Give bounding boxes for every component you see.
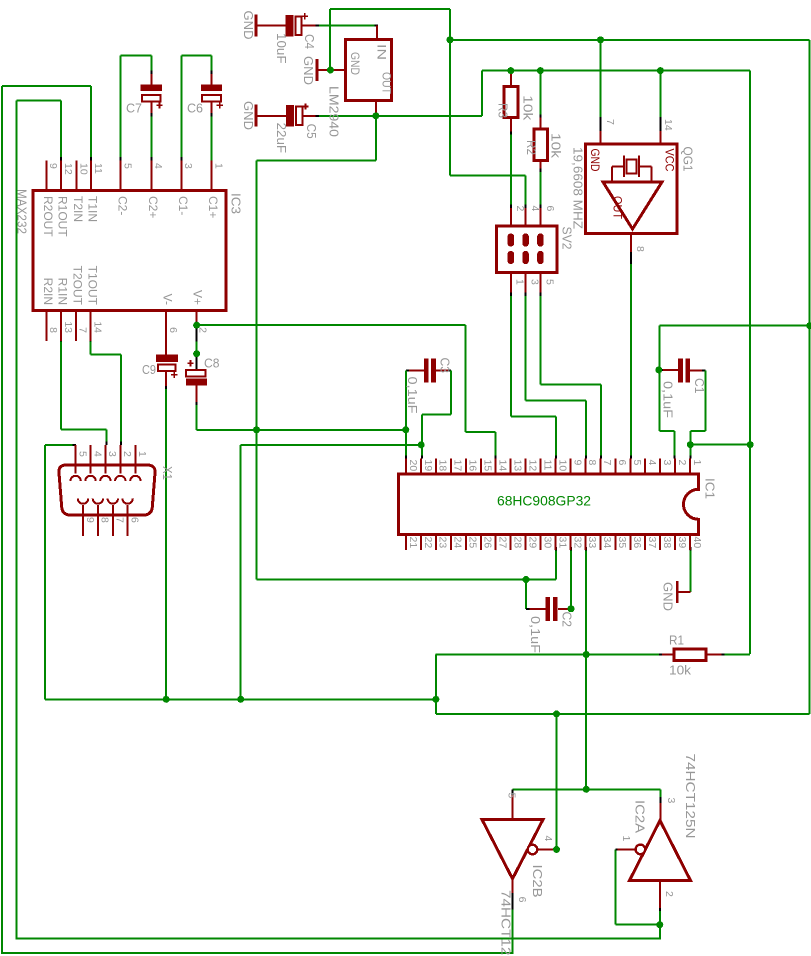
svg-text:6: 6 — [544, 206, 556, 212]
svg-text:15: 15 — [482, 460, 494, 472]
svg-text:28: 28 — [511, 537, 523, 549]
svg-text:2: 2 — [676, 460, 688, 466]
svg-text:OUT: OUT — [380, 72, 394, 95]
svg-text:74HCT125N: 74HCT125N — [683, 754, 698, 839]
svg-text:11: 11 — [92, 163, 104, 174]
svg-text:0,1uF: 0,1uF — [528, 616, 543, 653]
svg-text:VCC: VCC — [663, 149, 677, 172]
svg-text:30: 30 — [541, 537, 553, 549]
svg-text:OUT: OUT — [611, 196, 625, 220]
svg-text:9: 9 — [84, 517, 96, 523]
svg-text:C5: C5 — [304, 124, 319, 139]
svg-text:0,1uF: 0,1uF — [660, 381, 675, 418]
svg-text:R3: R3 — [495, 103, 510, 118]
svg-text:4: 4 — [152, 163, 164, 169]
svg-text:17: 17 — [452, 460, 464, 472]
svg-text:13: 13 — [62, 321, 74, 333]
svg-text:1: 1 — [691, 460, 703, 466]
svg-text:12: 12 — [526, 460, 538, 472]
svg-text:R1: R1 — [669, 633, 684, 648]
svg-text:7: 7 — [77, 327, 89, 333]
svg-text:5: 5 — [505, 793, 517, 799]
svg-text:2: 2 — [514, 206, 526, 212]
svg-text:MAX232: MAX232 — [14, 189, 29, 234]
svg-text:V-: V- — [161, 294, 175, 305]
svg-text:GND: GND — [588, 149, 602, 172]
svg-text:R2IN: R2IN — [41, 278, 55, 305]
svg-text:1: 1 — [212, 163, 224, 169]
svg-text:5: 5 — [631, 460, 643, 466]
svg-text:7: 7 — [604, 119, 616, 125]
svg-text:R1OUT: R1OUT — [56, 196, 70, 237]
svg-text:74HCT125N: 74HCT125N — [498, 890, 513, 956]
svg-text:C2-: C2- — [115, 196, 129, 215]
svg-text:8: 8 — [99, 517, 111, 523]
svg-text:T1IN: T1IN — [86, 196, 100, 222]
svg-text:22: 22 — [422, 537, 434, 549]
svg-text:R1IN: R1IN — [56, 278, 70, 305]
svg-text:19: 19 — [422, 460, 434, 472]
svg-text:27: 27 — [497, 537, 509, 549]
svg-text:3: 3 — [528, 279, 540, 285]
svg-text:21: 21 — [407, 537, 419, 549]
svg-text:29: 29 — [526, 537, 538, 549]
svg-text:38: 38 — [661, 537, 673, 549]
svg-text:5: 5 — [543, 279, 555, 285]
svg-text:C1: C1 — [692, 378, 707, 394]
svg-text:14: 14 — [662, 119, 674, 131]
svg-text:19,6608 MHZ: 19,6608 MHZ — [570, 147, 585, 229]
svg-text:8: 8 — [586, 460, 598, 466]
svg-text:34: 34 — [601, 537, 613, 549]
svg-text:1: 1 — [620, 836, 632, 842]
svg-text:QG1: QG1 — [680, 147, 695, 172]
svg-text:IC1: IC1 — [702, 478, 717, 499]
svg-text:31: 31 — [556, 537, 568, 549]
svg-text:C3: C3 — [437, 358, 452, 374]
svg-text:23: 23 — [437, 537, 449, 549]
svg-text:10uF: 10uF — [274, 33, 289, 64]
svg-text:X1: X1 — [160, 466, 175, 480]
svg-text:V+: V+ — [190, 290, 204, 305]
svg-text:IC2B: IC2B — [530, 865, 545, 898]
svg-text:11: 11 — [541, 460, 553, 471]
svg-text:8: 8 — [47, 327, 59, 333]
svg-text:6: 6 — [167, 327, 179, 333]
svg-text:C6: C6 — [187, 101, 203, 116]
svg-text:3: 3 — [182, 163, 194, 169]
svg-text:R2OUT: R2OUT — [41, 196, 55, 237]
svg-text:6: 6 — [616, 460, 628, 466]
svg-text:10k: 10k — [548, 133, 563, 159]
svg-text:GND: GND — [301, 56, 316, 85]
svg-text:32: 32 — [571, 537, 583, 549]
svg-text:4: 4 — [542, 836, 554, 842]
svg-text:C1-: C1- — [176, 196, 190, 215]
svg-text:4: 4 — [529, 206, 541, 212]
svg-text:4: 4 — [646, 460, 658, 466]
svg-text:2: 2 — [197, 327, 209, 333]
svg-text:C7: C7 — [126, 101, 142, 116]
svg-text:C4: C4 — [302, 34, 317, 49]
svg-text:39: 39 — [676, 537, 688, 549]
svg-text:C2: C2 — [559, 612, 574, 628]
svg-text:5: 5 — [122, 163, 134, 169]
svg-text:C2+: C2+ — [146, 196, 160, 218]
svg-text:16: 16 — [467, 460, 479, 472]
svg-text:20: 20 — [407, 460, 419, 472]
svg-text:14: 14 — [497, 460, 509, 472]
svg-text:SV2: SV2 — [559, 227, 574, 250]
svg-text:GND: GND — [241, 101, 256, 130]
svg-text:LM2940: LM2940 — [326, 86, 341, 137]
svg-text:7: 7 — [114, 517, 126, 523]
svg-text:4: 4 — [91, 451, 103, 457]
svg-text:T2IN: T2IN — [71, 196, 85, 222]
svg-text:24: 24 — [452, 537, 464, 549]
svg-text:18: 18 — [437, 460, 449, 472]
svg-text:C9: C9 — [142, 362, 156, 377]
svg-text:9: 9 — [47, 163, 59, 169]
svg-text:C1+: C1+ — [206, 196, 220, 218]
svg-text:IC3: IC3 — [228, 193, 243, 214]
svg-text:26: 26 — [482, 537, 494, 549]
svg-text:3: 3 — [665, 798, 677, 804]
svg-text:36: 36 — [631, 537, 643, 549]
svg-text:37: 37 — [646, 537, 658, 549]
svg-text:T2OUT: T2OUT — [71, 266, 85, 306]
svg-text:2: 2 — [663, 891, 675, 897]
svg-text:3: 3 — [661, 460, 673, 466]
svg-text:R2: R2 — [524, 140, 539, 155]
svg-text:12: 12 — [62, 163, 74, 175]
svg-text:10: 10 — [77, 163, 89, 175]
svg-text:1: 1 — [136, 451, 148, 457]
svg-text:C8: C8 — [204, 356, 220, 371]
svg-text:33: 33 — [586, 537, 598, 549]
svg-text:14: 14 — [92, 321, 104, 333]
svg-text:8: 8 — [634, 246, 646, 252]
svg-text:3: 3 — [106, 451, 118, 457]
svg-text:9: 9 — [571, 460, 583, 466]
svg-text:1: 1 — [513, 279, 525, 285]
svg-text:6: 6 — [516, 897, 528, 903]
svg-text:10: 10 — [556, 460, 568, 472]
svg-text:IC2A: IC2A — [632, 800, 647, 833]
svg-text:40: 40 — [691, 537, 703, 549]
svg-text:T1OUT: T1OUT — [85, 266, 99, 306]
svg-text:GND: GND — [241, 11, 256, 40]
svg-text:22uF: 22uF — [274, 123, 289, 154]
svg-text:6: 6 — [128, 517, 140, 523]
svg-text:5: 5 — [76, 451, 88, 457]
svg-text:IN: IN — [375, 44, 389, 60]
svg-text:10k: 10k — [520, 95, 535, 121]
svg-text:25: 25 — [467, 537, 479, 549]
svg-text:35: 35 — [616, 537, 628, 549]
svg-text:2: 2 — [121, 451, 133, 457]
svg-text:68HC908GP32: 68HC908GP32 — [497, 493, 591, 509]
svg-text:GND: GND — [660, 582, 675, 611]
svg-text:GND: GND — [348, 52, 362, 75]
svg-text:0,1uF: 0,1uF — [405, 377, 420, 414]
svg-text:7: 7 — [601, 460, 613, 466]
svg-text:10k: 10k — [669, 663, 692, 678]
svg-text:13: 13 — [511, 460, 523, 472]
